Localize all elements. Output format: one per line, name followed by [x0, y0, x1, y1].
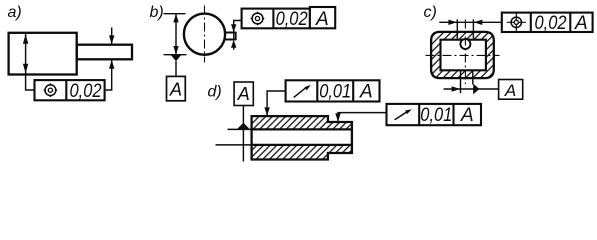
figure d: runout symbol 1	[294, 87, 307, 98]
figure b: datum triangle	[171, 55, 181, 61]
figure d: runout symbol 2	[395, 111, 408, 120]
figure c: hatched wall between outer and inner contour	[431, 32, 494, 78]
svg-text:a): a)	[8, 4, 22, 21]
figure b: tolerance frame	[242, 9, 310, 29]
figure c: arrow right to left ext line	[448, 20, 457, 25]
figure b: concentricity symbol	[251, 12, 265, 26]
figure b: leader arrow down on stub	[231, 24, 236, 32]
figure a: arrow down to shaft top	[109, 35, 114, 44]
figure a: tolerance frame	[35, 80, 105, 100]
svg-text:0,02: 0,02	[535, 13, 567, 34]
figure b: vertical centerline	[204, 6, 206, 63]
figure a: small shaft	[77, 45, 132, 60]
svg-text:d): d)	[208, 84, 222, 101]
figure b: datum leader line	[175, 61, 177, 76]
svg-text:A: A	[169, 79, 182, 99]
figure a: dimension line of large diameter with leader to frame	[26, 34, 34, 90]
figure d: sleeve outline	[252, 116, 352, 159]
svg-text:A: A	[315, 9, 329, 30]
figure d: tolerance frame 2	[387, 104, 482, 125]
figure c: hole	[460, 39, 470, 49]
figure b: circle (shaft end view)	[184, 14, 225, 55]
figure a: dimension line of shaft diameter, upper part	[111, 28, 113, 45]
figure b: top tangent extension line	[164, 13, 186, 15]
figure c: inner cavity rectangle	[441, 40, 486, 71]
svg-text:0,01: 0,01	[420, 105, 452, 126]
figure b: stub journal on right	[225, 32, 236, 41]
figure d: leader from frame 1 to outer surface	[267, 91, 286, 115]
svg-text:A: A	[574, 13, 588, 34]
figure d: leader 2 arrow	[335, 113, 340, 122]
figure c: datum box A	[499, 80, 523, 100]
figure c: arrow left to right ext line	[474, 20, 483, 25]
figure a: arrow down (large dia bottom)	[23, 64, 28, 74]
figure d: tolerance frame 1	[286, 80, 380, 101]
figure d: hatched upper wall	[252, 116, 352, 129]
svg-text:A: A	[359, 82, 373, 103]
figure b: arrow up	[173, 14, 178, 23]
svg-text:A: A	[460, 105, 474, 126]
figure b: bottom tangent extension line	[164, 54, 187, 56]
figure d: bore lines	[252, 128, 352, 130]
figure d: bore bottom extension line	[216, 144, 252, 146]
figure a: large cylinder body	[9, 33, 77, 75]
figure d: bore top extension line	[228, 128, 252, 130]
figure b: lower arrow up to stub bottom	[231, 40, 236, 48]
figure b: arrow down	[173, 46, 178, 55]
figure d: leader 1 arrow	[264, 107, 269, 116]
figure c: datum triangle	[473, 84, 479, 94]
figure d: datum triangle on bore line	[237, 123, 249, 129]
figure c: bottom dimension line to datum box	[444, 88, 499, 90]
figure a: arrow up (large dia top)	[23, 34, 28, 44]
figure c: bottom extension lines	[460, 71, 462, 94]
svg-text:0,02: 0,02	[70, 81, 102, 102]
figure b: datum box A	[167, 76, 186, 100]
figure a: concentricity symbol	[44, 83, 58, 97]
figure b: diameter dimension line	[175, 14, 177, 55]
svg-text:0,01: 0,01	[319, 82, 351, 103]
figure a: arrow up to shaft bottom	[109, 60, 114, 69]
svg-text:b): b)	[150, 4, 164, 21]
figure c: extension lines of hole edges (top)	[456, 19, 458, 38]
figure d: hatched lower wall	[252, 145, 352, 160]
figure b: leader from frame to stub	[234, 21, 242, 32]
figure c: tolerance frame	[502, 13, 593, 32]
figure c: position symbol	[507, 13, 526, 32]
figure c: vertical centerline	[464, 20, 466, 85]
svg-text:0,02: 0,02	[276, 9, 308, 30]
figure d: datum dimension line	[242, 106, 244, 162]
svg-text:c): c)	[424, 4, 437, 21]
figure d: datum box A	[234, 82, 253, 106]
figure a: dimension line of shaft diameter, lower part + leader to frame	[106, 60, 112, 90]
svg-text:A: A	[237, 84, 250, 104]
svg-text:A: A	[504, 81, 516, 100]
figure c: top dimension line with leader to frame	[439, 21, 502, 23]
figure d: leader from frame 2 to step surface	[338, 113, 387, 121]
figure c: arrow right	[452, 86, 461, 91]
figure c: outer rounded square	[431, 32, 494, 78]
figure c: horizontal centerline	[426, 54, 500, 56]
